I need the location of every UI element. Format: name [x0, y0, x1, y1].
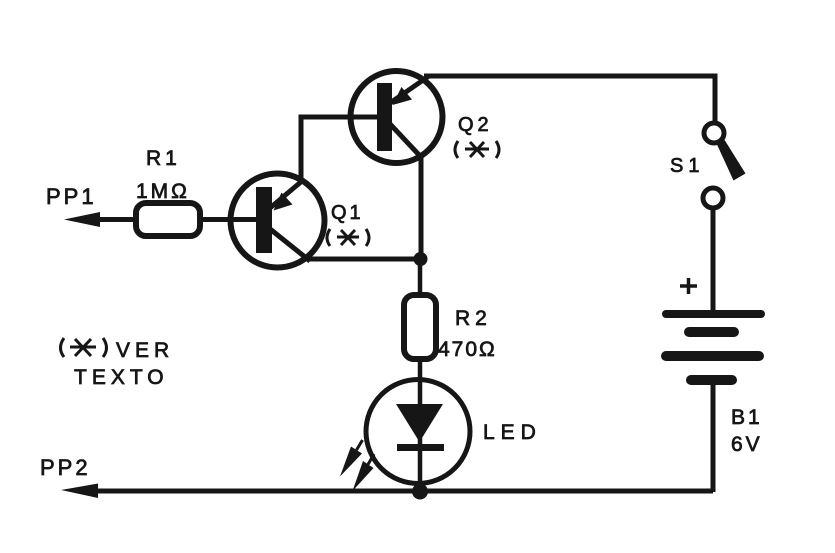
wire PP1 lead with arrow — [64, 212, 136, 227]
svg-text:Q1: Q1 — [331, 202, 364, 224]
transistor Q2 — [351, 71, 443, 163]
wire Q1 emitter to junction — [308, 257, 418, 262]
wire R2 to LED — [418, 359, 423, 382]
wire R1 to Q1 base — [200, 217, 258, 222]
transistor Q1 — [231, 174, 325, 268]
label ver texto note — [61, 338, 107, 357]
svg-text:470Ω: 470Ω — [438, 338, 497, 361]
svg-text:LED: LED — [483, 421, 542, 444]
wire bottom rail with PP2 arrow — [61, 484, 713, 499]
switch S1 — [703, 123, 746, 208]
label Q2 asterisk note — [455, 141, 499, 158]
svg-text:PP1: PP1 — [46, 184, 97, 209]
svg-text:TEXTO: TEXTO — [74, 366, 169, 389]
wire top rail to switch — [424, 76, 715, 124]
resistor R1 — [136, 203, 200, 236]
resistor R2 — [404, 295, 436, 359]
wire switch to battery — [711, 207, 716, 312]
node junction A — [414, 252, 428, 266]
svg-text:Q2: Q2 — [458, 114, 493, 136]
node junction B — [412, 484, 428, 500]
svg-text:6V: 6V — [731, 433, 763, 456]
wire Q1 collector to Q2 base — [301, 117, 378, 183]
battery B1 plus sign — [680, 278, 697, 294]
svg-text:R1: R1 — [146, 147, 181, 170]
svg-text:VER: VER — [116, 339, 174, 362]
battery B1 plates — [666, 314, 761, 380]
svg-text:S1: S1 — [670, 155, 704, 177]
svg-text:PP2: PP2 — [40, 455, 91, 480]
wire junction to R2 — [418, 259, 423, 297]
wire battery to bottom rail — [711, 384, 716, 492]
svg-text:R2: R2 — [455, 307, 492, 330]
label Q1 asterisk note — [327, 229, 369, 246]
LED — [340, 380, 470, 492]
svg-text:1MΩ: 1MΩ — [136, 180, 190, 203]
svg-text:B1: B1 — [731, 406, 763, 429]
wire Q2 emitter down to junction — [419, 156, 424, 256]
